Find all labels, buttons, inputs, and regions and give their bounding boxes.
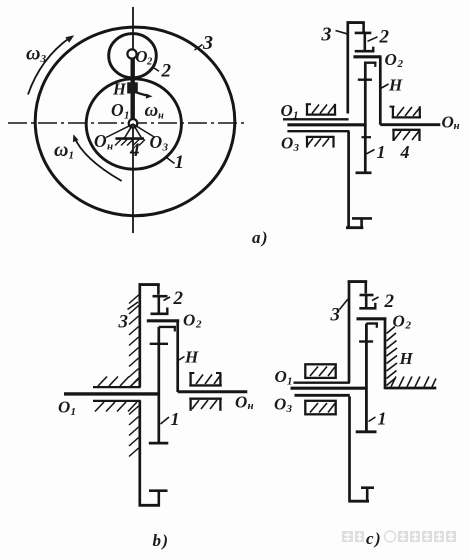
svg-text:2: 2	[173, 288, 184, 309]
svg-text:O: O	[385, 50, 397, 69]
svg-text:O: O	[58, 398, 70, 417]
svg-text:1: 1	[171, 409, 180, 429]
svg-text:1: 1	[377, 142, 386, 162]
svg-text:2: 2	[146, 57, 153, 68]
svg-text:ω: ω	[26, 43, 40, 65]
svg-text:O: O	[281, 134, 293, 153]
svg-text:4: 4	[129, 140, 140, 161]
svg-text:H: H	[388, 76, 403, 95]
svg-text:O: O	[274, 395, 286, 414]
svg-text:2: 2	[397, 58, 404, 70]
svg-text:ω: ω	[145, 100, 159, 121]
svg-text:3: 3	[321, 24, 332, 46]
svg-text:O: O	[150, 132, 163, 152]
svg-text:H: H	[399, 349, 414, 368]
svg-text:1: 1	[287, 376, 293, 388]
svg-text:c ): c )	[366, 529, 381, 548]
svg-text:2: 2	[405, 320, 412, 332]
svg-text:O: O	[183, 311, 195, 330]
svg-text:4: 4	[400, 142, 410, 162]
svg-text:O: O	[135, 47, 147, 66]
svg-text:O: O	[235, 393, 247, 412]
svg-text:O: O	[275, 367, 287, 386]
svg-text:1: 1	[69, 150, 75, 162]
svg-text:3: 3	[40, 53, 47, 65]
svg-text:3: 3	[330, 305, 341, 326]
svg-text:1: 1	[293, 110, 299, 122]
svg-text:2: 2	[195, 319, 202, 331]
svg-text:3: 3	[202, 32, 213, 54]
svg-text:H: H	[112, 79, 127, 98]
svg-text:3: 3	[118, 312, 129, 333]
svg-text:b ): b )	[153, 531, 169, 550]
svg-text:2: 2	[161, 61, 172, 82]
svg-text:1: 1	[71, 406, 77, 418]
svg-text:н: н	[107, 141, 113, 153]
svg-text:н: н	[158, 111, 164, 122]
svg-text:ω: ω	[54, 139, 68, 161]
svg-text:a ): a )	[252, 228, 268, 247]
svg-text:O: O	[442, 113, 454, 132]
svg-text:O: O	[281, 101, 293, 120]
svg-text:3: 3	[286, 403, 293, 415]
svg-text:O: O	[94, 131, 107, 151]
svg-text:1: 1	[124, 110, 130, 122]
svg-text:2: 2	[384, 291, 395, 312]
svg-text:3: 3	[162, 142, 169, 154]
svg-text:O: O	[111, 100, 124, 120]
svg-text:н: н	[454, 120, 460, 132]
svg-text:O: O	[393, 312, 405, 331]
svg-text:2: 2	[379, 27, 390, 48]
svg-text:1: 1	[175, 152, 185, 173]
svg-text:3: 3	[293, 142, 300, 154]
svg-text:H: H	[184, 348, 199, 367]
svg-text:1: 1	[378, 409, 387, 429]
svg-text:н: н	[248, 400, 254, 412]
